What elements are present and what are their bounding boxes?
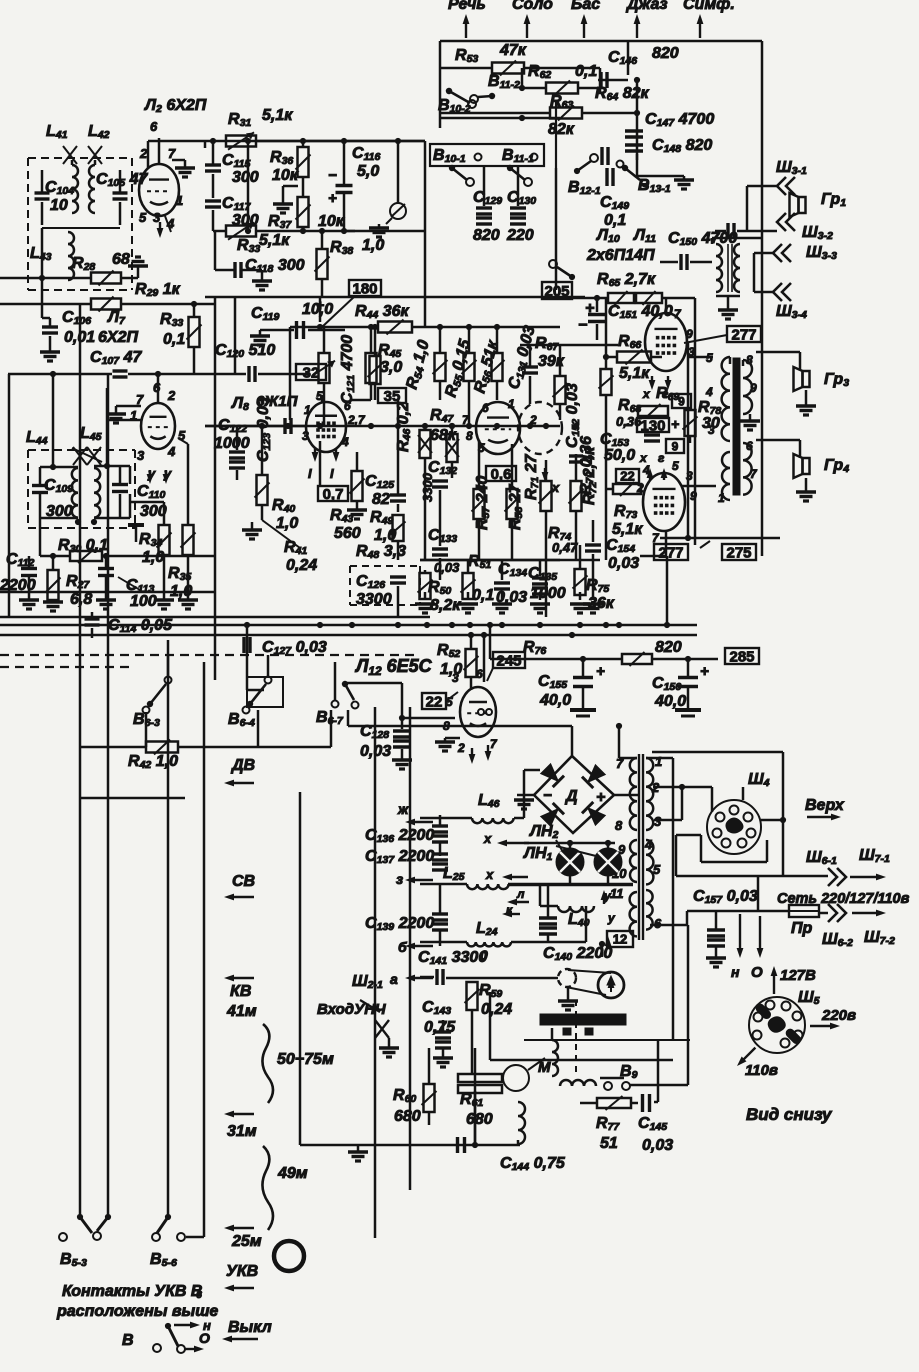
svg-text:О: О — [199, 1330, 210, 1346]
svg-text:С125: С125 — [365, 473, 394, 491]
svg-text:Ш2-1: Ш2-1 — [352, 973, 383, 991]
svg-text:L42: L42 — [88, 123, 110, 141]
svg-text:2: 2 — [139, 146, 148, 161]
svg-text:у: у — [607, 911, 616, 925]
svg-text:2: 2 — [457, 741, 465, 755]
svg-text:х: х — [642, 387, 651, 401]
svg-text:0,1: 0,1 — [575, 63, 597, 80]
svg-text:С118 300: С118 300 — [245, 257, 305, 275]
svg-text:0,03: 0,03 — [642, 1137, 673, 1154]
svg-text:0,03: 0,03 — [434, 560, 460, 575]
svg-text:6Х2П: 6Х2П — [98, 329, 138, 346]
svg-text:С123 0,03: С123 0,03 — [255, 397, 273, 462]
svg-text:40,0: 40,0 — [539, 692, 571, 709]
svg-text:9: 9 — [750, 381, 757, 395]
svg-text:L46: L46 — [478, 792, 500, 810]
svg-text:R37: R37 — [268, 213, 292, 231]
svg-text:8: 8 — [466, 429, 473, 443]
svg-text:R29 1к: R29 1к — [135, 281, 181, 299]
svg-text:1,0: 1,0 — [276, 515, 298, 532]
svg-text:680: 680 — [394, 1108, 421, 1125]
svg-text:R36: R36 — [270, 149, 293, 167]
svg-text:Соло: Соло — [512, 0, 553, 13]
svg-text:С144 0,75: С144 0,75 — [500, 1155, 566, 1173]
svg-text:Л2 6Х2П: Л2 6Х2П — [144, 97, 207, 115]
svg-text:R41: R41 — [284, 539, 307, 557]
svg-text:Контакты УКВ В: Контакты УКВ В — [62, 1283, 202, 1300]
svg-text:1: 1 — [655, 754, 662, 769]
svg-text:R33: R33 — [237, 237, 260, 255]
svg-text:+: + — [596, 789, 605, 806]
svg-text:3300: 3300 — [356, 591, 392, 608]
svg-text:ЛН1: ЛН1 — [523, 845, 553, 863]
svg-text:В12-1: В12-1 — [568, 179, 601, 197]
svg-text:Л10: Л10 — [596, 227, 620, 245]
svg-text:0,1: 0,1 — [163, 331, 185, 348]
svg-text:R65 2,7к: R65 2,7к — [597, 271, 656, 289]
svg-text:С154: С154 — [606, 537, 635, 555]
svg-text:22: 22 — [620, 469, 634, 484]
svg-text:245: 245 — [496, 652, 521, 669]
svg-text:4: 4 — [644, 837, 653, 852]
svg-text:820: 820 — [473, 227, 500, 244]
svg-text:0: 0 — [480, 947, 488, 963]
svg-text:5: 5 — [672, 459, 679, 473]
svg-text:Гр4: Гр4 — [824, 457, 849, 475]
svg-text:СВ: СВ — [232, 873, 255, 890]
svg-text:0,6: 0,6 — [491, 466, 512, 483]
svg-text:49м: 49м — [277, 1165, 308, 1182]
svg-text:12: 12 — [613, 932, 627, 947]
svg-text:С105 47: С105 47 — [96, 171, 149, 189]
svg-text:R73: R73 — [614, 503, 637, 521]
svg-text:R28: R28 — [72, 255, 95, 273]
svg-text:Ш3-2: Ш3-2 — [802, 224, 833, 242]
svg-text:−: − — [578, 317, 587, 334]
svg-text:Л7: Л7 — [107, 309, 126, 327]
svg-text:КВ: КВ — [230, 983, 251, 1000]
svg-text:R31: R31 — [228, 111, 251, 129]
svg-text:R75: R75 — [586, 577, 609, 595]
svg-text:С157 0,03: С157 0,03 — [693, 888, 758, 906]
svg-text:х: х — [485, 867, 494, 882]
svg-text:1: 1 — [176, 193, 183, 208]
svg-text:11: 11 — [610, 886, 624, 901]
svg-text:R52: R52 — [437, 642, 460, 660]
svg-text:−: − — [543, 787, 552, 804]
svg-text:220в: 220в — [821, 1007, 856, 1024]
svg-text:Речь: Речь — [448, 0, 486, 13]
svg-text:Вид снизу: Вид снизу — [746, 1105, 833, 1124]
svg-text:47к: 47к — [499, 42, 527, 59]
svg-text:Л11: Л11 — [633, 227, 656, 245]
svg-text:Ш6-2: Ш6-2 — [822, 931, 853, 949]
svg-text:+: + — [700, 663, 709, 680]
svg-text:С126: С126 — [356, 573, 385, 591]
svg-text:82к: 82к — [548, 121, 575, 138]
svg-text:285: 285 — [729, 648, 754, 665]
svg-text:4: 4 — [642, 463, 650, 477]
svg-text:С116: С116 — [352, 145, 381, 163]
svg-text:Ш5: Ш5 — [798, 989, 820, 1007]
svg-text:Ш4: Ш4 — [748, 771, 770, 789]
svg-text:R62: R62 — [528, 63, 551, 81]
svg-text:г: г — [658, 451, 665, 465]
svg-text:С107 47: С107 47 — [90, 349, 143, 367]
svg-text:С130: С130 — [507, 189, 536, 207]
svg-text:50,0: 50,0 — [604, 447, 635, 464]
svg-text:6: 6 — [196, 1289, 202, 1301]
svg-text:ЛН2: ЛН2 — [529, 823, 559, 841]
svg-text:а: а — [390, 971, 398, 987]
svg-text:С137 2200: С137 2200 — [365, 848, 434, 866]
svg-text:Ш7-2: Ш7-2 — [864, 929, 895, 947]
svg-text:С110: С110 — [137, 483, 166, 501]
svg-text:9: 9 — [678, 394, 685, 408]
svg-text:Л8: Л8 — [231, 395, 249, 413]
svg-text:0,03: 0,03 — [608, 555, 639, 572]
svg-text:В: В — [122, 1332, 134, 1349]
svg-text:В6-4: В6-4 — [228, 711, 255, 729]
svg-text:С149: С149 — [600, 194, 629, 212]
svg-text:С119: С119 — [251, 305, 280, 323]
svg-text:R71 27: R71 27 — [523, 453, 541, 500]
svg-text:С146: С146 — [608, 49, 637, 67]
svg-text:з: з — [396, 871, 403, 887]
svg-text:С141 3300: С141 3300 — [418, 949, 487, 967]
svg-text:3: 3 — [654, 814, 662, 829]
svg-text:6: 6 — [150, 119, 158, 134]
svg-text:Ш3-3: Ш3-3 — [806, 244, 837, 262]
svg-text:х: х — [483, 831, 492, 846]
svg-text:51: 51 — [600, 1135, 618, 1152]
svg-text:6: 6 — [746, 439, 753, 453]
svg-text:8: 8 — [615, 818, 623, 833]
svg-text:130: 130 — [640, 417, 665, 434]
svg-text:R33: R33 — [160, 311, 183, 329]
svg-text:R57 240: R57 240 — [474, 475, 492, 530]
svg-text:+: + — [328, 190, 337, 207]
svg-text:680: 680 — [466, 1111, 493, 1128]
svg-text:3: 3 — [452, 671, 459, 685]
svg-text:6: 6 — [654, 916, 662, 931]
svg-text:Верх: Верх — [805, 797, 845, 814]
svg-text:R47: R47 — [430, 407, 454, 425]
svg-text:1,0: 1,0 — [142, 549, 164, 566]
svg-text:4: 4 — [705, 385, 713, 399]
svg-text:ДВ: ДВ — [230, 757, 255, 774]
svg-text:5,1к: 5,1к — [612, 521, 643, 538]
svg-text:6: 6 — [476, 667, 483, 681]
svg-text:Выкл: Выкл — [228, 1319, 272, 1336]
svg-text:0,1: 0,1 — [472, 587, 494, 604]
svg-text:100: 100 — [130, 593, 157, 610]
svg-text:В5-3: В5-3 — [60, 1251, 87, 1269]
svg-text:7: 7 — [750, 467, 758, 481]
svg-text:180: 180 — [352, 280, 377, 297]
svg-text:−: − — [328, 167, 337, 184]
svg-text:Ш7-1: Ш7-1 — [859, 847, 890, 865]
svg-text:10: 10 — [50, 197, 68, 214]
svg-text:В11-1: В11-1 — [502, 147, 534, 165]
svg-text:820: 820 — [655, 639, 682, 656]
svg-text:С148 820: С148 820 — [652, 137, 712, 155]
svg-text:R42 1,0: R42 1,0 — [128, 753, 178, 771]
svg-text:Ш3-1: Ш3-1 — [776, 159, 807, 177]
svg-text:7: 7 — [490, 737, 498, 751]
svg-text:4: 4 — [167, 444, 176, 459]
svg-text:ж: ж — [397, 801, 409, 817]
svg-text:С139 2200: С139 2200 — [365, 915, 434, 933]
svg-text:220: 220 — [506, 227, 534, 244]
svg-text:40,0: 40,0 — [654, 693, 686, 710]
svg-text:I: I — [308, 466, 312, 481]
svg-text:б: б — [398, 939, 407, 955]
svg-text:Гр3: Гр3 — [824, 371, 849, 389]
svg-text:5,1к: 5,1к — [619, 365, 650, 382]
svg-text:R60: R60 — [393, 1087, 416, 1105]
svg-text:R44 36к: R44 36к — [355, 303, 410, 321]
svg-text:Гр1: Гр1 — [821, 191, 846, 209]
svg-text:25м: 25м — [231, 1233, 262, 1250]
svg-text:В5-6: В5-6 — [150, 1251, 177, 1269]
svg-text:−: − — [624, 417, 632, 433]
svg-text:С147 4700: С147 4700 — [645, 111, 714, 129]
svg-text:5,1к: 5,1к — [259, 232, 290, 249]
svg-text:9: 9 — [686, 327, 693, 341]
svg-text:277: 277 — [731, 326, 756, 343]
svg-text:3: 3 — [302, 429, 309, 443]
svg-text:1: 1 — [718, 491, 725, 505]
svg-text:Бас: Бас — [571, 0, 600, 13]
svg-text:С143: С143 — [422, 999, 451, 1017]
svg-text:0,24: 0,24 — [481, 1001, 512, 1018]
svg-text:С106: С106 — [62, 309, 91, 327]
svg-text:68: 68 — [112, 251, 130, 268]
svg-text:С127 0,03: С127 0,03 — [262, 639, 327, 657]
svg-text:10к: 10к — [318, 213, 345, 230]
svg-text:R54 1,0: R54 1,0 — [403, 338, 434, 391]
svg-text:С115: С115 — [222, 152, 251, 170]
svg-text:0,24: 0,24 — [286, 557, 317, 574]
svg-text:1: 1 — [304, 403, 311, 417]
svg-text:L41: L41 — [46, 123, 68, 141]
svg-text:Симф.: Симф. — [683, 0, 735, 13]
svg-text:С120 510: С120 510 — [215, 342, 275, 360]
svg-text:277: 277 — [658, 544, 683, 561]
svg-text:С145: С145 — [638, 1115, 667, 1133]
svg-text:5,0: 5,0 — [357, 163, 379, 180]
svg-text:5: 5 — [653, 862, 661, 877]
svg-text:R30 0,1: R30 0,1 — [58, 537, 108, 555]
svg-text:0,47: 0,47 — [552, 540, 578, 555]
svg-text:3: 3 — [137, 448, 145, 463]
svg-text:R48 3,3: R48 3,3 — [356, 543, 406, 561]
svg-text:4: 4 — [341, 435, 349, 449]
svg-text:+: + — [596, 663, 605, 680]
svg-text:1: 1 — [508, 397, 515, 411]
svg-text:Д: Д — [564, 788, 578, 805]
svg-text:R27: R27 — [66, 573, 90, 591]
svg-text:R53: R53 — [455, 47, 478, 65]
svg-text:+: + — [671, 416, 679, 432]
svg-text:С136 2200: С136 2200 — [365, 827, 434, 845]
svg-text:R66: R66 — [618, 333, 641, 351]
svg-text:9: 9 — [672, 439, 679, 453]
svg-text:R64 82к: R64 82к — [595, 85, 650, 103]
svg-text:R77: R77 — [596, 1115, 620, 1133]
svg-text:С156: С156 — [652, 675, 681, 693]
svg-text:2х6П14П: 2х6П14П — [586, 247, 655, 264]
svg-text:2: 2 — [167, 388, 176, 403]
svg-text:1000: 1000 — [214, 435, 250, 452]
svg-text:3,0: 3,0 — [380, 359, 402, 376]
svg-text:Ш3-4: Ш3-4 — [776, 303, 807, 321]
svg-text:6: 6 — [482, 401, 489, 415]
svg-text:Ш6-1: Ш6-1 — [806, 849, 837, 867]
svg-text:О: О — [751, 964, 763, 981]
svg-text:расположены выше: расположены выше — [56, 1303, 218, 1320]
svg-text:С155: С155 — [538, 673, 567, 691]
svg-text:В11-2: В11-2 — [488, 73, 520, 91]
svg-text:I: I — [330, 466, 334, 481]
svg-text:3: 3 — [708, 423, 715, 437]
svg-text:0,7: 0,7 — [323, 486, 344, 503]
svg-text:5: 5 — [139, 210, 147, 225]
svg-text:R72 2,4к: R72 2,4к — [581, 446, 599, 505]
svg-text:L24: L24 — [476, 920, 498, 938]
svg-text:L44: L44 — [26, 429, 48, 447]
svg-text:31м: 31м — [227, 1123, 257, 1140]
svg-text:10к: 10к — [272, 167, 299, 184]
svg-text:В10-1: В10-1 — [433, 147, 466, 165]
svg-text:820: 820 — [652, 45, 679, 62]
svg-text:Джаз: Джаз — [625, 0, 668, 13]
svg-text:127В: 127В — [780, 967, 816, 984]
svg-text:8: 8 — [746, 353, 753, 367]
svg-text:Л12 6Е5С: Л12 6Е5С — [354, 656, 433, 678]
svg-text:22: 22 — [426, 693, 443, 710]
svg-text:L25: L25 — [443, 865, 465, 883]
svg-text:3300: 3300 — [420, 472, 435, 502]
svg-text:82: 82 — [372, 491, 390, 508]
svg-text:С121 4700: С121 4700 — [339, 335, 357, 404]
svg-text:5,1к: 5,1к — [262, 107, 293, 124]
svg-text:41м: 41м — [226, 1003, 257, 1020]
svg-text:275: 275 — [726, 544, 751, 561]
svg-text:Пр: Пр — [791, 920, 813, 937]
svg-text:С133: С133 — [428, 527, 457, 545]
svg-text:6: 6 — [344, 399, 351, 413]
svg-text:R40: R40 — [272, 497, 295, 515]
svg-text:110в: 110в — [745, 1062, 778, 1079]
svg-text:УКВ: УКВ — [226, 1263, 258, 1280]
svg-text:С109: С109 — [44, 477, 73, 495]
svg-text:R49: R49 — [370, 509, 393, 527]
svg-text:R76: R76 — [523, 639, 546, 657]
svg-text:С129: С129 — [473, 189, 502, 207]
svg-text:л: л — [516, 887, 525, 901]
svg-text:1,0: 1,0 — [362, 237, 384, 254]
svg-text:ВходУНЧ: ВходУНЧ — [317, 1001, 386, 1018]
svg-text:R38: R38 — [330, 239, 353, 257]
svg-text:н: н — [731, 964, 740, 980]
svg-text:560: 560 — [334, 525, 361, 542]
svg-text:7: 7 — [674, 307, 682, 321]
svg-text:С135: С135 — [528, 565, 557, 583]
svg-text:L45: L45 — [80, 425, 102, 443]
svg-text:50−75м: 50−75м — [277, 1051, 334, 1068]
svg-text:300: 300 — [232, 169, 259, 186]
